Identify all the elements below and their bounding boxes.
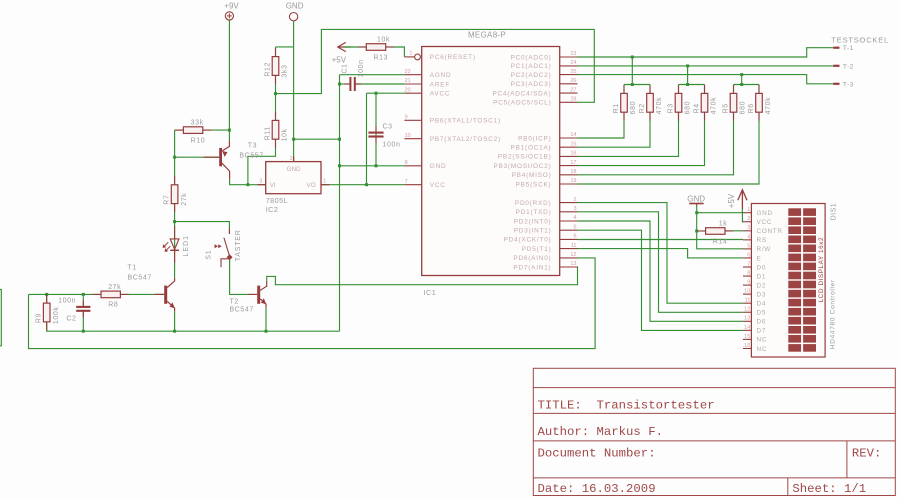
junction at (632.3,57) [631, 56, 634, 59]
wire R3 top lead [678, 85, 680, 94]
svg-text:PB1(OC1A): PB1(OC1A) [511, 145, 552, 152]
svg-text:15: 15 [744, 334, 750, 340]
wire R pair bridge 1 [624, 84, 650, 86]
wire R14 to CONTR [725, 230, 743, 232]
svg-text:S1: S1 [206, 250, 213, 260]
wire +5V to LCD VCC [742, 209, 743, 222]
svg-text:R3: R3 [668, 103, 675, 113]
IC1 pin 13 PD7(AIN1) [513, 261, 577, 271]
junction at (339.5,165.8) [338, 164, 341, 167]
svg-text:VI: VI [270, 182, 276, 189]
resistor R11 10k [265, 112, 289, 148]
junction at (83.3,331.2) [82, 330, 85, 333]
IC1 pin 25 PC2(ADC2) [511, 69, 578, 79]
IC1 pin 23 PC0(ADC0) [511, 51, 578, 61]
svg-text:R13: R13 [374, 54, 389, 61]
wire C2 bottom lead [82, 311, 84, 331]
IC1 pin 16 PB2(SS/OC1B) [498, 151, 578, 161]
svg-text:+5V: +5V [332, 56, 347, 65]
svg-text:25: 25 [570, 69, 576, 75]
svg-text:Sheet: 1/1: Sheet: 1/1 [792, 482, 866, 496]
svg-text:4: 4 [747, 234, 750, 240]
LCD display DIS1 box [751, 203, 837, 357]
LCD pin 3 CONTR [743, 225, 783, 235]
svg-text:100n: 100n [58, 297, 76, 304]
svg-text:VCC: VCC [430, 182, 446, 189]
wire test node drop 3 [741, 75, 743, 85]
svg-text:4: 4 [573, 215, 576, 221]
LCD pin 10 D3 [743, 289, 766, 299]
title block frame [533, 368, 895, 495]
svg-text:D7: D7 [757, 328, 767, 335]
junction at (83.3,294.4) [82, 293, 85, 296]
svg-text:D5: D5 [757, 310, 767, 317]
transistor T3 BC557 [204, 141, 264, 179]
svg-text:9: 9 [405, 115, 408, 121]
resistor R3 680 [668, 85, 692, 121]
svg-text:2: 2 [290, 156, 293, 162]
wire PB3 to R4 [578, 112, 705, 166]
supply +9V symbol [224, 2, 239, 20]
IC1 pin 20 AVCC [404, 87, 450, 97]
junction at (741.7,84.5) [740, 83, 743, 86]
svg-text:21: 21 [405, 78, 411, 84]
svg-text:PD7(AIN1): PD7(AIN1) [513, 264, 551, 271]
svg-text:470k: 470k [656, 97, 663, 115]
svg-text:MEGA8-P: MEGA8-P [468, 30, 506, 39]
junction at (293.6,139.2) [292, 138, 295, 141]
LCD pin 8 D1 [743, 270, 766, 280]
wire R1 top lead [623, 85, 625, 94]
junction at (687.6,84.5) [686, 83, 689, 86]
svg-text:9: 9 [747, 280, 750, 286]
transistor T1 BC547 [128, 264, 175, 311]
svg-text:3: 3 [573, 206, 576, 212]
IC1 pin 27 PC4(ADC4/SDA) [492, 87, 577, 97]
wire R pair bridge 3 [734, 84, 760, 86]
IC1 pin 11 PD5(T1) [522, 243, 578, 253]
IC1 pin 24 PC1(ADC1) [511, 60, 578, 70]
svg-text:R5: R5 [723, 103, 730, 113]
LCD character cells [788, 208, 816, 351]
svg-text:LCD DISPLAY 16x2: LCD DISPLAY 16x2 [818, 237, 825, 302]
wire emitter GND rail [47, 323, 340, 332]
svg-text:PC5(ADC5/SCL): PC5(ADC5/SCL) [493, 100, 551, 107]
resistor R6 470k [748, 85, 772, 121]
svg-text:PC4(ADC4/SDA): PC4(ADC4/SDA) [492, 90, 551, 97]
wire PB2 to R3 [578, 112, 679, 156]
svg-text:R11: R11 [265, 126, 272, 140]
svg-text:TASTER: TASTER [235, 229, 242, 261]
resistor R2 470k [639, 85, 663, 121]
wire PB5 to R6 [578, 112, 760, 184]
LCD pin 12 D5 [743, 307, 766, 317]
svg-text:E: E [757, 255, 762, 262]
LCD pin 15 NC [743, 334, 767, 344]
svg-text:12: 12 [570, 252, 576, 258]
wire VO to VCC pin 7 [321, 184, 404, 186]
LCD pin 16 NC [743, 343, 767, 353]
wire S1 to T2 base [230, 259, 249, 295]
svg-text:C2: C2 [66, 315, 76, 322]
svg-text:PC3(ADC3): PC3(ADC3) [511, 81, 552, 88]
wire +5V to R13 to RESET [344, 47, 404, 57]
IC1 pin 18 PB4(MISO) [512, 169, 578, 179]
wire R12 bottom to PC5 pin 28 [276, 29, 595, 102]
wire R12/R11 column [275, 47, 277, 139]
svg-text:12: 12 [744, 307, 750, 313]
junction at (376,93.2) [375, 92, 378, 95]
svg-text:PB5(SCK): PB5(SCK) [516, 181, 552, 188]
junction at (741.7,74.6) [740, 73, 743, 76]
svg-text:R2: R2 [639, 103, 646, 113]
svg-text:GND: GND [287, 166, 301, 173]
svg-text:R14: R14 [713, 238, 728, 245]
svg-text:22: 22 [405, 69, 411, 75]
IC1 pin 3 PD1(TXD) [516, 206, 578, 216]
svg-text:GND: GND [757, 210, 773, 217]
wire GND long vertical [339, 75, 341, 332]
supply GND symbol (top) [286, 2, 304, 21]
IC1 pin 22 AGND [404, 69, 451, 79]
junction at (247.9,184.7) [246, 183, 249, 186]
junction at (46.7,294.4) [45, 293, 48, 296]
wire LCD GND pin 1 [697, 212, 743, 214]
svg-text:1k: 1k [719, 220, 728, 227]
wire T1 emitter down [174, 311, 176, 331]
junction at (632.3,84.5) [631, 83, 634, 86]
wire C3 branch [375, 93, 377, 166]
resistor R4 470k [694, 85, 718, 121]
svg-text:PB3(MOSI/OC2): PB3(MOSI/OC2) [494, 163, 552, 170]
svg-text:R4: R4 [694, 103, 701, 113]
LCD pin 11 D4 [743, 298, 766, 308]
svg-text:13: 13 [570, 261, 576, 267]
svg-text:VCC: VCC [757, 219, 773, 226]
IC1 pin 1 PC6(RESET) with bubble [404, 51, 420, 60]
junction at (174.6,221.6) [173, 220, 176, 223]
wire R12 top link [276, 46, 294, 48]
wire PB0 to R1 [578, 112, 625, 138]
supply +5V arrow (near LCD) [727, 190, 747, 209]
svg-text:PC0(ADC0): PC0(ADC0) [511, 54, 552, 61]
svg-text:T2: T2 [230, 299, 239, 306]
svg-text:1: 1 [747, 207, 750, 213]
test pad T-3 [833, 81, 854, 88]
wire left edge bracket [0, 290, 1, 346]
wire GND pin 8 [340, 165, 405, 167]
LCD pin 2 VCC [743, 216, 772, 226]
voltage regulator IC2 7805L [258, 156, 330, 214]
svg-text:1: 1 [323, 179, 326, 185]
LED LED1 [163, 226, 190, 263]
svg-text:+9V: +9V [224, 2, 239, 11]
IC1 pin 2 PD0(RXD) [515, 197, 578, 207]
wire T2 collector to PD7 [267, 267, 578, 285]
svg-text:Document Number:: Document Number: [538, 447, 656, 461]
wire test node drop 1 [631, 57, 633, 85]
svg-text:16: 16 [570, 151, 576, 157]
svg-text:D1: D1 [757, 273, 767, 280]
LCD pin 5 R/W [743, 243, 771, 253]
wire GND symbol down to 7805 GND pin [293, 21, 295, 162]
title block texts [538, 399, 882, 496]
svg-text:GND: GND [430, 163, 447, 170]
wire R4 top lead [704, 85, 706, 94]
LCD pin 13 D6 [743, 316, 766, 326]
wire PD6 loop to measure node [29, 258, 596, 349]
svg-text:DIS1: DIS1 [831, 203, 838, 221]
svg-text:R8: R8 [108, 302, 118, 309]
wire test node drop 2 [687, 66, 689, 85]
wire PC1 to T-2 [578, 65, 834, 67]
svg-text:BC557: BC557 [239, 153, 263, 160]
svg-text:PD2(INT0): PD2(INT0) [514, 218, 552, 225]
wire GND cross link [294, 138, 340, 140]
svg-text:REV:: REV: [852, 447, 882, 461]
wire R5 top lead [733, 85, 735, 94]
svg-text:7: 7 [747, 261, 750, 267]
svg-text:AVCC: AVCC [430, 91, 450, 98]
svg-text:PD6(AIN0): PD6(AIN0) [513, 255, 551, 262]
wire PB1 to R2 [578, 112, 651, 147]
svg-text:PD5(T1): PD5(T1) [522, 246, 552, 253]
svg-text:T-1: T-1 [843, 45, 854, 52]
wire +9V rail down to T3 emitter [228, 20, 230, 141]
svg-text:R/W: R/W [757, 246, 772, 253]
svg-text:100k: 100k [53, 307, 60, 325]
wire measure node line (T1 base) [29, 293, 165, 295]
junction at (696.7,231) [695, 230, 698, 233]
LCD pin 14 D7 [743, 325, 766, 335]
svg-text:PD3(INT1): PD3(INT1) [514, 228, 552, 235]
IC1 pin 4 PD2(INT0) [514, 215, 578, 225]
svg-text:28: 28 [570, 97, 576, 103]
resistor R7 27k [164, 176, 188, 212]
wire PB4 to R5 [578, 112, 734, 175]
svg-text:27k: 27k [108, 284, 121, 291]
svg-text:23: 23 [570, 51, 576, 57]
svg-text:T3: T3 [248, 143, 257, 150]
IC1 pin 10 PB7(XTAL2/TOSC2) [404, 133, 501, 143]
svg-text:Date: 16.03.2009: Date: 16.03.2009 [538, 482, 656, 496]
junction at (339.5,84) [338, 83, 341, 86]
svg-text:27k: 27k [181, 193, 188, 206]
junction at (266,331.2) [265, 330, 268, 333]
capacitor C1 100n [342, 59, 366, 91]
svg-text:26: 26 [570, 78, 576, 84]
svg-text:20: 20 [405, 87, 411, 93]
wire R9 top lead [46, 294, 48, 303]
svg-text:2: 2 [747, 216, 750, 222]
svg-text:AREF: AREF [430, 81, 450, 88]
svg-text:14: 14 [744, 325, 750, 331]
junction at (275.5,93.6) [274, 92, 277, 95]
IC1 pin 5 PD3(INT1) [514, 224, 578, 234]
IC1 pin 8 GND [404, 160, 446, 170]
LCD pin 6 E [743, 252, 761, 262]
svg-text:PB2(SS/OC1B): PB2(SS/OC1B) [498, 154, 552, 161]
junction at (696.7,212.7) [695, 211, 698, 214]
svg-text:5: 5 [573, 224, 576, 230]
svg-text:VO: VO [307, 182, 316, 189]
svg-text:470k: 470k [765, 97, 772, 115]
svg-text:NC: NC [757, 346, 768, 353]
svg-text:PB0(ICP): PB0(ICP) [518, 135, 551, 142]
supply GND symbol (near LCD) [687, 194, 705, 205]
svg-text:C3: C3 [383, 124, 393, 131]
svg-text:27: 27 [570, 87, 576, 93]
wire PD1 to D5 [578, 212, 744, 312]
wire R6 top lead [758, 85, 760, 94]
svg-text:R7: R7 [164, 195, 171, 205]
transistor T2 BC547 [230, 281, 267, 331]
svg-text:T-2: T-2 [843, 63, 854, 70]
svg-text:PC1(ADC1): PC1(ADC1) [511, 63, 552, 70]
svg-text:GND: GND [687, 194, 705, 203]
svg-text:PD0(RXD): PD0(RXD) [515, 200, 552, 207]
svg-text:PC6(RESET): PC6(RESET) [430, 54, 476, 61]
IC1 pin 6 PD4(XCK/T0) [504, 234, 578, 244]
resistor R8 27k [93, 284, 129, 309]
svg-text:10k: 10k [377, 36, 390, 43]
IC1 pin 12 PD6(AIN0) [513, 252, 577, 262]
svg-text:R1: R1 [613, 103, 620, 113]
wire R14 left lead link [697, 230, 706, 232]
svg-text:16: 16 [744, 343, 750, 349]
wire PC0 to T-1 [578, 48, 834, 57]
svg-text:17: 17 [570, 160, 576, 166]
svg-text:Author: Markus F.: Author: Markus F. [538, 425, 663, 439]
wire C2 top lead [82, 294, 84, 306]
svg-text:8: 8 [405, 160, 408, 166]
svg-text:T1: T1 [128, 264, 137, 271]
svg-text:33k: 33k [191, 120, 204, 127]
svg-text:+5V: +5V [727, 193, 736, 208]
resistor R1 680 [613, 85, 637, 121]
wire PD5 to E [578, 249, 744, 258]
IC1 pin 21 AREF [404, 78, 450, 88]
LCD pin 1 GND [743, 207, 773, 217]
junction at (174.6,331.2) [173, 330, 176, 333]
wire left vertical R10/R7 column [174, 130, 176, 222]
wire R10 net [175, 129, 230, 131]
svg-text:PC2(ADC2): PC2(ADC2) [511, 72, 552, 79]
svg-text:PD1(TXD): PD1(TXD) [516, 209, 552, 216]
svg-text:6: 6 [573, 234, 576, 240]
svg-text:7: 7 [405, 179, 408, 185]
IC1 pin 9 PB6(XTAL1/TOSC1) [404, 115, 501, 125]
svg-text:PB6(XTAL1/TOSC1): PB6(XTAL1/TOSC1) [430, 118, 501, 125]
svg-text:18: 18 [570, 169, 576, 175]
wire LCD GND net vertical to R/W [697, 205, 743, 249]
svg-text:8: 8 [747, 270, 750, 276]
IC1 pin 26 PC3(ADC3) [511, 78, 578, 88]
svg-text:6: 6 [747, 252, 750, 258]
svg-text:IC1: IC1 [424, 288, 437, 297]
svg-text:11: 11 [571, 243, 577, 249]
svg-text:RS: RS [757, 237, 767, 244]
svg-text:3: 3 [259, 179, 262, 185]
wire LED column [174, 222, 176, 278]
svg-text:100n: 100n [358, 59, 365, 77]
IC1 pin 15 PB1(OC1A) [511, 141, 578, 151]
svg-text:PD4(XCK/T0): PD4(XCK/T0) [504, 237, 552, 244]
svg-text:D6: D6 [757, 319, 767, 326]
svg-text:R12: R12 [265, 62, 272, 77]
LCD pin 4 RS [743, 234, 767, 244]
resistor R5 680 [723, 85, 747, 121]
wire R2 top lead [649, 85, 651, 94]
svg-text:10k: 10k [282, 128, 289, 141]
wire AVCC [367, 92, 405, 94]
junction at (687.6,65.9) [686, 64, 689, 67]
svg-text:T-3: T-3 [843, 81, 854, 88]
svg-text:PB4(MISO): PB4(MISO) [512, 172, 552, 179]
svg-text:1: 1 [409, 51, 412, 57]
svg-text:D0: D0 [757, 264, 767, 271]
wire PD2 to D6 [578, 221, 744, 321]
svg-text:C1: C1 [342, 63, 349, 73]
svg-text:LED1: LED1 [183, 235, 190, 257]
junction at (376,165.8) [375, 164, 378, 167]
IC1 pin 14 PB0(ICP) [518, 132, 577, 142]
svg-text:R9: R9 [36, 313, 43, 323]
LCD pin 7 D0 [743, 261, 766, 271]
wire T3 base [175, 156, 220, 158]
svg-text:IC2: IC2 [266, 205, 279, 214]
svg-text:TESTSOCKEL: TESTSOCKEL [831, 35, 889, 44]
test pad T-1 [833, 45, 854, 52]
svg-text:5: 5 [747, 243, 750, 249]
wire PD0 to D4 [578, 203, 744, 304]
svg-text:AGND: AGND [430, 72, 452, 79]
wire +5V vertical AVCC to VO [366, 93, 368, 185]
svg-text:3k3: 3k3 [282, 65, 289, 78]
svg-text:100n: 100n [383, 142, 401, 149]
resistor R10 33k [175, 120, 211, 145]
svg-text:D3: D3 [757, 291, 767, 298]
svg-text:13: 13 [744, 316, 750, 322]
svg-text:7805L: 7805L [266, 196, 289, 205]
junction at (339.5,139.2) [338, 138, 341, 141]
wire PC2 to T-3 [578, 75, 834, 84]
svg-text:TITLE: Transistortester: TITLE: Transistortester [538, 399, 715, 413]
svg-text:470k: 470k [711, 97, 718, 115]
svg-text:19: 19 [570, 178, 576, 184]
LCD pin 9 D2 [743, 280, 766, 290]
svg-text:680: 680 [630, 101, 637, 114]
wire AGND [340, 74, 405, 76]
junction at (174.6,157.2) [173, 156, 176, 159]
svg-text:BC547: BC547 [128, 274, 152, 281]
wire R pair bridge 2 [679, 84, 705, 86]
svg-text:11: 11 [745, 298, 751, 304]
svg-text:D2: D2 [757, 282, 767, 289]
svg-text:10: 10 [744, 289, 750, 295]
capacitor C3 100n [368, 124, 400, 149]
test pad T-2 [833, 63, 854, 70]
svg-text:BC547: BC547 [230, 307, 254, 314]
svg-text:2: 2 [573, 197, 576, 203]
svg-text:680: 680 [685, 101, 692, 114]
wire C1 left plate link [340, 83, 351, 85]
svg-text:14: 14 [570, 132, 576, 138]
svg-text:R6: R6 [748, 103, 755, 113]
svg-text:15: 15 [570, 141, 576, 147]
svg-text:GND: GND [286, 2, 304, 11]
microcontroller IC1 MEGA8-P [422, 30, 560, 297]
